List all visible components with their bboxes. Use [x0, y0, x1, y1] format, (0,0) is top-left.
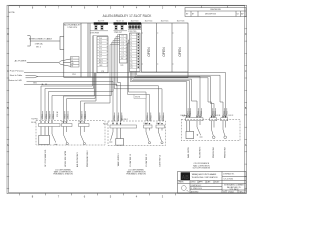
svg-text:FLOW SW 3: FLOW SW 3 — [200, 146, 202, 158]
svg-text:PRESS SW: PRESS SW — [213, 147, 215, 158]
svg-text:L2: L2 — [71, 60, 73, 62]
border frame outer — [7, 5, 247, 193]
zone numbers top — [32, 7, 164, 10]
svg-text:17SR TXD: 17SR TXD — [128, 31, 137, 33]
wire tags middle group — [114, 114, 165, 121]
zone letters left — [7, 34, 9, 147]
svg-text:FLOW SW 13: FLOW SW 13 — [146, 153, 148, 166]
arrowheads right group — [186, 116, 226, 118]
svg-text:17SR 1A: 17SR 1A — [34, 43, 43, 46]
bus m1a — [41, 77, 93, 120]
svg-text:W 17S: W 17S — [135, 97, 140, 99]
svg-text:O 6: O 6 — [121, 53, 123, 55]
svg-text:FLD 2B: FLD 2B — [144, 123, 149, 125]
svg-text:T8: T8 — [130, 56, 132, 58]
svg-text:FLD PNL 2: FLD PNL 2 — [121, 119, 128, 121]
svg-text:IN 4: IN 4 — [99, 49, 102, 51]
open slot 16 — [141, 47, 188, 72]
device FS6 flow switch — [159, 128, 164, 144]
title block — [178, 172, 247, 194]
svg-text:FLD PNL 1: FLD PNL 1 — [32, 119, 39, 121]
caption middle — [126, 170, 146, 176]
zone numbers bottom — [32, 194, 164, 198]
svg-text:IN 5: IN 5 — [99, 51, 102, 53]
svg-text:T5: T5 — [130, 48, 132, 50]
svg-text:T1: T1 — [130, 37, 132, 39]
bus m2b — [116, 77, 159, 121]
module M1 slot9 — [90, 22, 108, 73]
svg-text:17SR OUT: 17SR OUT — [114, 32, 122, 34]
svg-text:GLYCOPS STATION: GLYCOPS STATION — [193, 167, 211, 170]
border zone ticks right — [244, 17, 247, 189]
svg-text:OPEN: OPEN — [162, 47, 166, 57]
svg-text:IN 2: IN 2 — [99, 43, 102, 45]
open slot 15 — [162, 23, 172, 72]
long bus L3 return — [27, 81, 114, 123]
device PS2 pressure switch — [223, 121, 227, 139]
svg-text:GLYCOL TANK LVL: GLYCOL TANK LVL — [44, 149, 47, 167]
border zone ticks left — [7, 17, 10, 189]
svg-text:FLD 1C: FLD 1C — [79, 122, 84, 124]
svg-text:PNEUMATIC STATION: PNEUMATIC STATION — [126, 173, 146, 176]
long bus L4 return b — [24, 84, 117, 125]
terminal strip TB4 — [110, 125, 137, 128]
svg-text:CT-17031: CT-17031 — [224, 179, 234, 181]
processor terminal box — [71, 57, 80, 68]
device FS3 flow switch — [81, 127, 86, 145]
svg-text:NT: NT — [71, 66, 73, 68]
device FS1 switch — [52, 127, 57, 145]
svg-text:IN 7: IN 7 — [99, 57, 102, 59]
svg-text:17S-12: 17S-12 — [57, 111, 59, 117]
svg-text:17S 1: 17S 1 — [72, 74, 76, 76]
svg-text:PRESS SW: PRESS SW — [225, 147, 227, 158]
wire label frame W17S — [134, 95, 146, 99]
bus m2f — [84, 77, 110, 120]
terminal strip TB5 — [144, 125, 153, 128]
wire arrowhead AT — [42, 84, 44, 85]
terminal strip TB6 — [156, 125, 165, 128]
bus b6 — [131, 82, 187, 118]
device FS7 switch — [197, 121, 203, 137]
bus m2d — [49, 77, 114, 120]
processor U1 header — [64, 23, 81, 29]
svg-text:PRESSURE SW 2: PRESSURE SW 2 — [87, 150, 89, 167]
M2 wire fan — [110, 35, 120, 78]
svg-text:AT: AT — [45, 83, 47, 86]
enclosure middle dashed — [108, 121, 166, 146]
terminal strip TB1 — [39, 124, 61, 127]
device XT2 tank transmitter — [116, 128, 124, 145]
svg-text:PNEUMATIC STATION: PNEUMATIC STATION — [53, 173, 73, 176]
M3 left fan wire a — [128, 40, 146, 121]
svg-text:O 1: O 1 — [121, 39, 123, 41]
bus m2e — [52, 77, 112, 120]
bus m2a — [118, 77, 121, 125]
bus m2c — [115, 77, 163, 121]
svg-text:1746-NI8: 1746-NI8 — [131, 23, 137, 25]
bus b1 — [137, 75, 224, 118]
svg-text:FLD 3C: FLD 3C — [229, 115, 234, 117]
wire tags right group — [188, 110, 229, 117]
arrowheads middle group — [112, 123, 163, 125]
svg-text:NOTE:: NOTE: — [8, 12, 15, 14]
svg-text:IN 3: IN 3 — [99, 46, 102, 48]
M1 wire drops — [93, 36, 94, 78]
svg-text:TAMAQUA-POUNTZ-HAANK: TAMAQUA-POUNTZ-HAANK — [192, 173, 217, 176]
open slot edge ticks — [141, 33, 173, 64]
device FS5 flow switch — [146, 128, 151, 144]
svg-text:RAIL XMTR: RAIL XMTR — [187, 147, 190, 158]
zone letters right — [245, 34, 247, 147]
svg-text:FLD 1B: FLD 1B — [62, 122, 67, 124]
svg-text:DESCRIPTION: DESCRIPTION — [205, 14, 217, 16]
svg-text:OPEN: OPEN — [147, 47, 151, 57]
interconnect cable W2 — [27, 36, 64, 50]
caption left — [53, 170, 73, 176]
svg-text:O 2: O 2 — [121, 41, 123, 43]
terminal strip TB9 — [221, 118, 228, 121]
slot labels — [98, 21, 185, 23]
svg-text:GND: GND — [99, 65, 102, 67]
svg-text:TELEPHONE CORPORATION: TELEPHONE CORPORATION — [192, 176, 219, 179]
svg-text:REVISIONS: REVISIONS — [210, 9, 221, 11]
svg-text:17SR CPU: 17SR CPU — [67, 27, 77, 29]
rack outline — [64, 23, 188, 77]
svg-text:T3: T3 — [130, 42, 132, 44]
border zone ticks bottom — [20, 193, 176, 195]
svg-text:O 4: O 4 — [121, 47, 123, 49]
bus b5 — [132, 80, 190, 117]
device labels left group — [44, 149, 89, 167]
arrowheads left group — [40, 122, 85, 124]
bus m1d — [67, 73, 95, 121]
bus m1b — [45, 77, 94, 120]
svg-text:IN 0: IN 0 — [99, 38, 102, 40]
device XT1 level transmitter — [39, 127, 50, 145]
svg-text:R. JONES 10-14: R. JONES 10-14 — [191, 188, 202, 190]
svg-text:LEVEL SW XMTR: LEVEL SW XMTR — [65, 150, 67, 167]
svg-text:AC POWER: AC POWER — [15, 59, 27, 62]
long bus L2 next in table — [38, 77, 200, 118]
svg-text:T0: T0 — [130, 34, 132, 36]
wire tags left group — [42, 113, 87, 120]
svg-text:T10: T10 — [130, 62, 133, 64]
device labels right group — [187, 146, 227, 158]
svg-text:T4: T4 — [130, 45, 132, 47]
M3 bottom bundle — [131, 72, 137, 82]
svg-text:OPEN: OPEN — [178, 47, 182, 57]
svg-text:T11: T11 — [130, 64, 132, 66]
svg-text:IN 6: IN 6 — [99, 54, 102, 56]
svg-text:O 5: O 5 — [121, 50, 123, 52]
drawing title text — [224, 184, 244, 191]
svg-text:CHECK: CHECK — [191, 182, 196, 184]
svg-text:ALLEN-BRADLEY: ALLEN-BRADLEY — [64, 23, 81, 26]
revision table — [185, 8, 246, 17]
bus b3 — [134, 78, 211, 118]
svg-text:FLD 3B: FLD 3B — [216, 115, 221, 117]
svg-text:17SR PWR: 17SR PWR — [90, 32, 99, 34]
enclosure left dashed — [36, 121, 105, 146]
terminal strip TB2 — [62, 124, 73, 127]
svg-text:ALLEN-BRADLEY 17-SLOT RACK: ALLEN-BRADLEY 17-SLOT RACK — [103, 14, 153, 18]
device FS2 flow switch — [64, 127, 69, 145]
header row cells — [178, 181, 219, 184]
svg-text:FLD 2C: FLD 2C — [156, 123, 161, 125]
svg-text:17S: 17S — [121, 65, 124, 67]
svg-text:Next In Table: Next In Table — [10, 74, 23, 77]
svg-text:T12: T12 — [130, 67, 133, 69]
long bus L1 from previous — [24, 73, 226, 118]
bus m1e — [81, 73, 96, 121]
svg-text:Return to LHD: Return to LHD — [8, 79, 22, 82]
svg-text:INTERCONNECT CABLE: INTERCONNECT CABLE — [29, 38, 53, 41]
device XT3 rail transmitter — [186, 121, 194, 139]
svg-text:SLOT 13: SLOT 13 — [131, 21, 139, 23]
svg-text:T7: T7 — [130, 53, 132, 55]
svg-text:SLOT 15: SLOT 15 — [161, 21, 169, 23]
enclosure right dashed — [181, 119, 240, 140]
terminal strip TB8 — [210, 118, 217, 121]
module M3 slot13 — [128, 22, 141, 71]
border zone ticks top — [20, 6, 228, 8]
module M2 slot11 — [114, 22, 128, 67]
svg-text:SLOT 9: SLOT 9 — [98, 21, 104, 23]
M3 left fan wire b — [128, 43, 150, 121]
svg-text:O 7: O 7 — [121, 55, 123, 57]
svg-text:T6: T6 — [130, 51, 132, 53]
svg-text:SLOT 14: SLOT 14 — [145, 21, 153, 23]
svg-text:T9: T9 — [130, 59, 132, 61]
svg-text:J. SMITH 10-12: J. SMITH 10-12 — [191, 185, 202, 187]
device FS4 switch — [109, 128, 113, 142]
svg-text:AIR FLOW SW 1: AIR FLOW SW 1 — [76, 151, 79, 167]
company logo — [181, 172, 190, 180]
border frame inner — [9, 6, 245, 193]
svg-text:170312: 170312 — [228, 191, 234, 193]
offpage flag symbol — [26, 75, 38, 77]
terminal strip TB3 — [79, 124, 90, 127]
terminal strip TB7 — [186, 118, 204, 121]
device labels middle group — [117, 153, 162, 167]
mid info rows — [191, 185, 202, 193]
caption right — [193, 163, 211, 170]
bus b4 — [133, 79, 197, 118]
svg-text:L1: L1 — [71, 58, 73, 60]
svg-text:T2: T2 — [130, 40, 132, 42]
svg-text:FLOW SW 12: FLOW SW 12 — [130, 153, 132, 166]
svg-text:SLOT 11: SLOT 11 — [116, 21, 123, 23]
open slot 14 — [141, 23, 156, 72]
svg-text:TANK XMTR 2: TANK XMTR 2 — [117, 153, 120, 167]
svg-text:O 3: O 3 — [121, 44, 123, 46]
svg-text:AB: AB — [182, 175, 190, 181]
svg-text:SH 2: SH 2 — [240, 191, 244, 193]
bus m1c — [64, 73, 95, 121]
bus b2 — [135, 77, 214, 118]
svg-text:From Previous: From Previous — [10, 71, 24, 73]
svg-text:O 0: O 0 — [121, 36, 123, 38]
svg-text:LIMIT SW 14: LIMIT SW 14 — [160, 154, 162, 167]
device PS1 pressure switch — [212, 121, 216, 139]
svg-text:IN 1: IN 1 — [99, 41, 102, 43]
signature mark — [181, 186, 188, 192]
svg-text:SLOT 16: SLOT 16 — [177, 21, 185, 23]
svg-text:FLD PNL 3: FLD PNL 3 — [182, 115, 189, 117]
